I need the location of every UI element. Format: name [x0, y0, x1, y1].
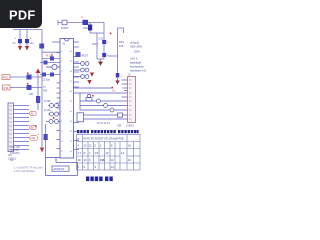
- notes text block right margin: [130, 40, 147, 72]
- svg-text:#14,: #14,: [100, 158, 105, 162]
- ground: [40, 148, 44, 153]
- svg-text:4.7: 4.7: [78, 151, 82, 155]
- PDF badge: [0, 0, 42, 28]
- IC U1 right pin stubs: [74, 42, 81, 150]
- ground: [25, 46, 29, 51]
- connector pins: [14, 106, 30, 150]
- wire bus y88: [74, 87, 113, 89]
- svg-text:1A: 1A: [121, 151, 124, 155]
- wire bus y105: [80, 105, 128, 107]
- svg-text:+: +: [38, 132, 40, 136]
- net label B: [30, 125, 37, 129]
- net label C: [30, 136, 38, 141]
- wire left feed: [13, 29, 42, 31]
- capacitor C2: [25, 30, 34, 47]
- wire top-right loop: [108, 28, 124, 73]
- diode D3: [27, 85, 32, 90]
- bead pair L8: [48, 113, 60, 115]
- bead L6: [55, 120, 59, 124]
- table cells: [78, 144, 132, 170]
- wire h y33: [90, 32, 104, 34]
- resistor R1: [39, 44, 44, 49]
- svg-text:PDF: PDF: [9, 7, 36, 22]
- resistor R2: [36, 96, 40, 103]
- filter block U4: [97, 23, 104, 60]
- svg-text:+: +: [30, 36, 32, 40]
- port label P11: [3, 85, 11, 90]
- ground: [98, 59, 103, 66]
- capacitor C7: [50, 73, 54, 77]
- bead L2: [104, 104, 108, 108]
- IC U1 left pin stubs: [52, 42, 60, 149]
- vcc arrow: [36, 69, 41, 97]
- capacitor C12 right rail: [116, 73, 120, 78]
- svg-text:P10: P10: [3, 76, 9, 80]
- svg-text:10 11 12 13: 10 11 12 13: [97, 122, 110, 125]
- capacitor C30: [102, 40, 106, 44]
- reset box U2: [76, 52, 81, 57]
- capacitor C6: [42, 73, 46, 77]
- svg-text:P11: P11: [4, 86, 9, 90]
- svg-text:10u: 10u: [30, 42, 35, 45]
- capacitor C1: [13, 30, 23, 47]
- table title: [77, 130, 139, 133]
- doc title: [86, 177, 113, 182]
- port label P10: [2, 75, 10, 80]
- svg-text:10K: 10K: [119, 44, 124, 48]
- svg-text:R 10K: R 10K: [44, 109, 51, 112]
- svg-text:5210: 5210: [92, 42, 98, 46]
- wire y74 crystal: [40, 74, 60, 76]
- wire left rail x42: [41, 30, 43, 148]
- svg-text:J/0A: J/0A: [134, 49, 140, 53]
- wire bus y110: [80, 109, 128, 111]
- svg-text:D1N: D1N: [83, 27, 88, 30]
- wire bus y119: [84, 118, 128, 120]
- wire RST pin: [42, 51, 60, 53]
- svg-text:C31: C31: [99, 37, 104, 41]
- wire data bus y93: [74, 92, 128, 94]
- ground: [115, 78, 120, 85]
- wire bottom loop: [46, 158, 78, 176]
- buzzer LS1: [87, 94, 90, 97]
- wire y87: [10, 87, 42, 89]
- diode D5 on top bus: [83, 20, 89, 25]
- legend text block: [10, 146, 20, 162]
- wire bus y115: [84, 114, 128, 116]
- bead L5: [49, 120, 53, 124]
- ground: [18, 46, 22, 51]
- wire feed x80: [79, 93, 81, 110]
- svg-text:Rx0: Rx0: [43, 90, 48, 93]
- svg-text:N: N: [84, 151, 86, 155]
- IC U1 AT89C51: [60, 39, 74, 159]
- svg-text:CON12: CON12: [126, 125, 135, 128]
- svg-text:+: +: [121, 74, 123, 78]
- svg-text:hardware I/O: hardware I/O: [130, 68, 147, 72]
- node n4: [112, 87, 114, 89]
- svg-text:2. Ror edd hardwire: 2. Ror edd hardwire: [14, 170, 36, 173]
- ground: [87, 80, 91, 84]
- switch S1: [46, 64, 60, 69]
- node n3: [53, 117, 55, 119]
- svg-text:C2 30p: C2 30p: [42, 79, 50, 82]
- node n2: [35, 125, 37, 127]
- wire vertical drop x90: [89, 23, 91, 34]
- resistor R10 on top bus: [62, 20, 67, 25]
- regulator U3: [88, 25, 92, 31]
- wire y77: [10, 76, 42, 78]
- node n1: [110, 33, 112, 35]
- resistor R5: [118, 113, 123, 117]
- ground: [90, 73, 94, 77]
- driver U6: [77, 113, 84, 122]
- bead pair L7: [48, 105, 60, 107]
- svg-text:U1: U1: [62, 42, 66, 46]
- capacitor C8: [44, 134, 48, 140]
- svg-text:+: +: [81, 16, 83, 20]
- svg-text:NC: NC: [10, 159, 14, 162]
- connector J2 stub pins: [122, 80, 128, 97]
- table frame: [77, 135, 141, 171]
- wire y58: [42, 58, 60, 60]
- svg-text:10K: 10K: [29, 93, 34, 96]
- net label A: [30, 111, 37, 115]
- diode D2: [27, 75, 32, 80]
- svg-text:1. A and B RT TR ring 2mA: 1. A and B RT TR ring 2mA: [14, 166, 43, 169]
- svg-text:REST: REST: [82, 55, 89, 58]
- svg-text:CS1: CS1: [31, 137, 36, 140]
- crystal Y1 box: [52, 166, 69, 171]
- capacitor C5: [44, 61, 48, 65]
- svg-text:P0 P1 P2 P3 RST XTL EA ALE PSE: P0 P1 P2 P3 RST XTL EA ALE PSE: [84, 137, 124, 140]
- svg-text:AD0 J/0A: AD0 J/0A: [130, 44, 142, 48]
- bead L3: [110, 108, 114, 112]
- svg-text:RP1: RP1: [119, 40, 125, 44]
- connector J3 header left: [8, 103, 14, 152]
- svg-text:IN4007: IN4007: [61, 27, 69, 30]
- wire bus y101: [80, 100, 128, 102]
- svg-text:+: +: [15, 36, 17, 40]
- wire xtal pair: [46, 121, 60, 123]
- svg-text:R 10K: R 10K: [44, 100, 51, 103]
- svg-text:TXD P31: TXD P31: [10, 152, 20, 155]
- wire top bus VCC: [58, 20, 104, 25]
- capacitor C4: [50, 57, 54, 61]
- svg-text:1.5: 1.5: [95, 151, 99, 155]
- svg-text:J2B: J2B: [117, 125, 122, 128]
- svg-text:AT89C51: AT89C51: [54, 167, 65, 171]
- connector J2 right: [126, 73, 136, 128]
- capacitor C31: [102, 53, 106, 57]
- switch bank S2: [74, 62, 89, 79]
- bead L1: [97, 99, 101, 103]
- wire y62: [40, 62, 60, 64]
